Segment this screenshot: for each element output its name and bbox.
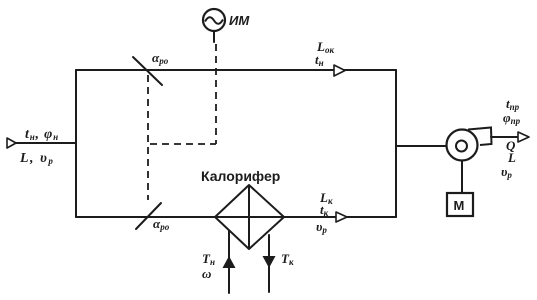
- svg-text:ИМ: ИМ: [229, 13, 250, 28]
- svg-text:М: М: [454, 198, 465, 213]
- svg-text:L: L: [507, 150, 516, 165]
- svg-text:ω: ω: [202, 266, 211, 281]
- svg-text:Калорифер: Калорифер: [201, 168, 280, 184]
